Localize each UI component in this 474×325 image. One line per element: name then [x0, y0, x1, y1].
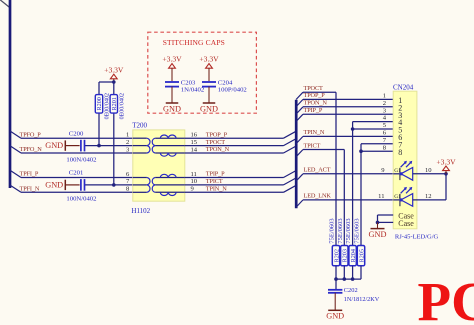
svg-text:GND: GND: [369, 230, 387, 239]
svg-text:75E/0603: 75E/0603: [337, 218, 344, 243]
svg-text:2: 2: [126, 139, 129, 146]
svg-text:LED_LNK: LED_LNK: [304, 193, 332, 200]
svg-text:1: 1: [126, 132, 129, 139]
svg-text:C203: C203: [181, 79, 196, 86]
svg-text:TPOP_P: TPOP_P: [206, 131, 228, 138]
svg-text:+3.3V: +3.3V: [162, 54, 182, 63]
svg-text:100P/0402: 100P/0402: [218, 86, 247, 93]
svg-text:R203: R203: [342, 249, 349, 262]
svg-text:C204: C204: [218, 79, 233, 86]
svg-text:RJ-45-LED/G/G: RJ-45-LED/G/G: [395, 233, 439, 240]
svg-text:R201: R201: [111, 97, 118, 110]
svg-text:10: 10: [425, 167, 432, 174]
svg-text:R204: R204: [350, 249, 357, 262]
svg-text:16: 16: [191, 132, 198, 139]
svg-text:GND: GND: [326, 312, 344, 321]
svg-text:12: 12: [425, 193, 432, 200]
svg-text:1N/1812/2KV: 1N/1812/2KV: [344, 296, 380, 303]
svg-text:TPFO_P: TPFO_P: [20, 131, 42, 138]
svg-text:R202: R202: [333, 249, 340, 262]
svg-text:T200: T200: [132, 121, 147, 129]
svg-text:GND: GND: [45, 141, 63, 150]
svg-text:10: 10: [191, 178, 198, 185]
svg-text:TPOP_P: TPOP_P: [304, 92, 326, 99]
svg-text:11: 11: [378, 193, 384, 200]
svg-text:75E/0603: 75E/0603: [329, 218, 336, 243]
svg-text:STITCHING CAPS: STITCHING CAPS: [163, 38, 225, 47]
svg-text:TPIN_N: TPIN_N: [206, 186, 227, 193]
svg-text:GND: GND: [200, 104, 218, 113]
svg-text:G1: G1: [394, 168, 401, 174]
svg-text:+3.3V: +3.3V: [104, 66, 124, 75]
svg-text:TPIN_N: TPIN_N: [304, 129, 325, 136]
svg-text:TPOCT: TPOCT: [206, 139, 225, 146]
svg-text:H1102: H1102: [131, 207, 150, 215]
svg-text:LED_ACT: LED_ACT: [304, 167, 331, 174]
svg-text:C202: C202: [344, 287, 358, 294]
svg-text:2: 2: [383, 100, 386, 107]
svg-text:Case: Case: [398, 219, 414, 228]
svg-text:TPOCT: TPOCT: [304, 85, 323, 92]
svg-text:75E/0603: 75E/0603: [345, 218, 352, 243]
svg-text:TPIP_P: TPIP_P: [206, 171, 225, 178]
svg-text:14: 14: [191, 146, 198, 153]
svg-text:11: 11: [191, 171, 197, 178]
svg-text:100N/0402: 100N/0402: [66, 156, 96, 163]
svg-text:TPON_N: TPON_N: [304, 100, 328, 107]
svg-text:+3.3V: +3.3V: [436, 157, 456, 166]
svg-text:8: 8: [398, 148, 402, 157]
svg-text:C200: C200: [69, 130, 84, 137]
svg-text:CN204: CN204: [393, 83, 414, 91]
svg-text:R205: R205: [358, 249, 365, 262]
svg-text:TPFI_P: TPFI_P: [20, 171, 39, 178]
svg-text:R200: R200: [96, 97, 103, 110]
svg-text:TPFI_N: TPFI_N: [20, 186, 40, 193]
svg-text:TPON_N: TPON_N: [206, 146, 230, 153]
svg-text:PC: PC: [418, 271, 474, 325]
svg-text:75E/0603: 75E/0603: [354, 218, 361, 243]
svg-text:1N/0402: 1N/0402: [181, 86, 204, 93]
svg-text:TPFO_N: TPFO_N: [20, 146, 43, 153]
svg-text:GND: GND: [45, 181, 63, 190]
svg-text:G1: G1: [394, 194, 401, 200]
svg-text:0E00/0402: 0E00/0402: [120, 93, 126, 119]
svg-text:GND: GND: [163, 104, 181, 113]
svg-text:1: 1: [383, 93, 386, 100]
svg-text:+3.3V: +3.3V: [199, 54, 219, 63]
svg-text:15: 15: [191, 139, 198, 146]
svg-text:TPICT: TPICT: [304, 142, 321, 149]
svg-text:TPICT: TPICT: [206, 178, 223, 185]
svg-text:TPIP_P: TPIP_P: [304, 107, 323, 114]
svg-text:C201: C201: [69, 170, 84, 177]
svg-text:100N/0402: 100N/0402: [66, 196, 96, 203]
